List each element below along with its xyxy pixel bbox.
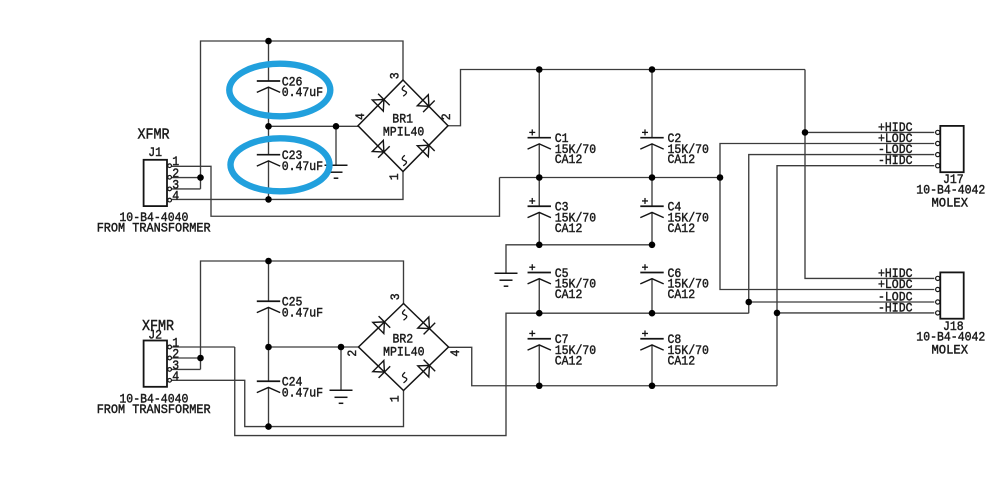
capacitor C8 xyxy=(640,330,709,368)
capacitor C23 xyxy=(257,148,323,174)
svg-text:MPIL40: MPIL40 xyxy=(383,344,424,359)
capacitor C7 xyxy=(528,330,597,368)
wire C25 top branch xyxy=(268,261,270,301)
capacitor C3 xyxy=(528,198,597,236)
svg-text:0.47uF: 0.47uF xyxy=(282,385,323,400)
svg-text:CA12: CA12 xyxy=(555,353,583,368)
svg-text:-HIDC: -HIDC xyxy=(878,300,913,315)
pin circle J18 pin 2 xyxy=(936,287,940,291)
wire +LODC J17 pin 2 and drop to J18 pin 2 xyxy=(720,144,934,290)
capacitor C1 xyxy=(528,129,597,167)
AC squiggle mark BR1 xyxy=(402,86,406,97)
diode BR2 lower-right xyxy=(418,365,430,377)
svg-text:0.47uF: 0.47uF xyxy=(282,85,323,100)
svg-text:MOLEX: MOLEX xyxy=(932,195,969,210)
wire +LO rail C1/C3 junction xyxy=(500,177,721,179)
wire -LO rail C5/C7 junction to J2 pin 1 xyxy=(235,313,749,435)
svg-text:3: 3 xyxy=(388,72,403,79)
junction dot at (268.5,41) xyxy=(265,38,272,45)
junction dot at (539.25,385.75) xyxy=(536,382,543,389)
bridge rectifier BR2 diamond xyxy=(359,304,449,391)
capacitor C26 xyxy=(257,74,323,100)
wire -HIDC to J18 pin 4 xyxy=(777,312,934,314)
svg-text:CA12: CA12 xyxy=(555,221,583,236)
svg-text:CA12: CA12 xyxy=(668,353,696,368)
junction dot at (720,177.5) xyxy=(717,174,724,181)
diode BR1 upper-left xyxy=(372,100,384,112)
wire -LODC to J18 pin 3 xyxy=(749,301,935,303)
capacitor C24 xyxy=(257,375,323,401)
wire C26 bottom to mid node xyxy=(268,87,270,126)
pin circle J1 pin 4 xyxy=(168,198,172,202)
diode BR2 upper-right xyxy=(418,317,430,329)
junction dot at (539.25,69.5) xyxy=(536,66,543,73)
ground at BR2 minus net xyxy=(330,390,353,403)
wire ground rail C3/C4 to C5/C6 xyxy=(506,245,652,273)
svg-text:J1: J1 xyxy=(148,145,162,160)
capacitor C4 xyxy=(640,198,709,236)
wire C25 bottom xyxy=(268,307,270,347)
wire C24 top xyxy=(268,347,270,381)
pin circle J1 pin 1 xyxy=(168,164,172,168)
wire ground stem at BR1 pin 4 net xyxy=(335,126,337,165)
bridge rectifier BR1 diamond xyxy=(358,80,448,172)
wire mid rail C25/C24 junction to BR2 pin 2 xyxy=(269,346,359,348)
pin circle J2 pin 4 xyxy=(168,378,172,382)
wire J2 pin 2 stub xyxy=(172,357,201,359)
pin circle J18 pin 4 xyxy=(936,311,940,315)
svg-text:CA12: CA12 xyxy=(555,287,583,302)
junction dot at (268.5,426.6) xyxy=(265,423,272,430)
ground at BR1 minus net xyxy=(325,165,348,178)
pin circle J18 pin 1 xyxy=(936,276,940,280)
wire J1 pin 3 stub xyxy=(172,188,201,190)
connector J18 body xyxy=(940,272,963,318)
svg-text:FROM TRANSFORMER: FROM TRANSFORMER xyxy=(97,220,211,235)
junction dot at (268.5,347) xyxy=(265,344,272,351)
wire C2/C4/C6/C8 column xyxy=(651,70,653,138)
junction dot at (336,126.3) xyxy=(333,123,340,130)
connector J1 body xyxy=(144,160,167,206)
pin circle J17 pin 1 xyxy=(936,130,940,134)
pin circle J2 pin 2 xyxy=(168,356,172,360)
diode BR1 lower-right xyxy=(417,145,429,157)
svg-text:2: 2 xyxy=(439,113,454,120)
wire BR1 pin 2 to +HI cap rail xyxy=(448,70,805,126)
wire C1/C3/C5/C7 column xyxy=(538,70,540,138)
junction dot at (200.5,358) xyxy=(197,355,204,362)
capacitor C2 xyxy=(640,129,709,167)
diode BR1 upper-right xyxy=(417,95,429,107)
pin circle J17 pin 2 xyxy=(936,141,940,145)
junction dot at (341,347) xyxy=(338,344,345,351)
junction dot at (748.75,302) xyxy=(745,299,752,306)
wire C26 top branch xyxy=(268,41,270,81)
junction dot at (268.5,199.4) xyxy=(265,196,272,203)
wire C23 top xyxy=(268,126,270,154)
svg-text:3: 3 xyxy=(388,293,403,300)
svg-text:XFMR: XFMR xyxy=(138,127,170,144)
wire J1 pin 2 stub xyxy=(172,177,201,179)
ground at capacitor bank mid rail xyxy=(495,273,518,286)
svg-text:4: 4 xyxy=(448,350,463,357)
wire -HIDC J17 pin 4 and drop to -HI rail xyxy=(777,166,934,386)
wire +HI vertical feed to J17/J18 +HIDC xyxy=(805,70,934,279)
wire -HI bottom rail from BR2 pin 4 xyxy=(449,347,778,385)
diode BR2 lower-left xyxy=(373,361,385,373)
wire J2 pin 3 stub xyxy=(172,368,201,370)
junction dot at (652,177.5) xyxy=(649,174,656,181)
svg-text:MPIL40: MPIL40 xyxy=(383,124,424,139)
junction dot at (200.5,177.6) xyxy=(197,174,204,181)
svg-text:0.47uF: 0.47uF xyxy=(282,305,323,320)
svg-text:4: 4 xyxy=(172,369,179,384)
svg-text:FROM TRANSFORMER: FROM TRANSFORMER xyxy=(97,402,211,417)
svg-text:CA12: CA12 xyxy=(555,152,583,167)
svg-text:MOLEX: MOLEX xyxy=(932,342,969,357)
junction dot at (652,313.2) xyxy=(649,310,656,317)
wire J2 pin 4 to BR2 pin 1 xyxy=(172,380,404,426)
pin circle J1 pin 2 xyxy=(168,175,172,179)
AC squiggle mark BR2 xyxy=(402,310,406,321)
junction dot at (777,312.9) xyxy=(774,310,781,317)
svg-text:J2: J2 xyxy=(148,327,162,342)
wire C24 bottom xyxy=(268,387,270,426)
wire ground stem at BR2 pin 2 net xyxy=(340,347,342,390)
wire mid rail C26/C23 junction to BR1 pin 4 xyxy=(269,125,359,127)
pin circle J17 pin 4 xyxy=(936,164,940,168)
highlight ellipse around C26 xyxy=(229,64,330,117)
pin circle J1 pin 3 xyxy=(168,187,172,191)
pin circle J17 pin 3 xyxy=(936,153,940,157)
svg-text:1: 1 xyxy=(388,395,403,402)
junction dot at (539.25,313.2) xyxy=(536,310,543,317)
diode BR1 lower-left xyxy=(372,140,384,152)
wire J1 pin 1 to +LO rail (C1/C3 junction) xyxy=(172,166,500,216)
pin circle J2 pin 3 xyxy=(168,368,172,372)
pin circle J18 pin 3 xyxy=(936,300,940,304)
wire C23 bottom xyxy=(268,161,270,199)
svg-text:1: 1 xyxy=(387,173,402,180)
AC squiggle mark BR2 xyxy=(402,372,406,383)
wire bottom-section AC rail J2 pins 2/3 to BR2 pin 3 xyxy=(201,261,404,369)
svg-text:CA12: CA12 xyxy=(668,152,696,167)
junction dot at (652,385.75) xyxy=(649,382,656,389)
connector J2 body xyxy=(144,341,167,387)
capacitor C6 xyxy=(640,264,709,302)
wire top-left AC rail from J1 pins 2/3 to BR1 pin 3 xyxy=(201,41,404,189)
AC squiggle mark BR1 xyxy=(402,155,406,166)
wire +HIDC to J17 pin 1 xyxy=(805,131,934,133)
junction dot at (539.25,177.5) xyxy=(536,174,543,181)
junction dot at (268.5,261) xyxy=(265,258,272,265)
capacitor C5 xyxy=(528,264,597,302)
wire J2 pin 1 stub xyxy=(172,346,235,348)
junction dot at (268.5,126.3) xyxy=(265,123,272,130)
capacitor C25 xyxy=(257,295,323,321)
pin circle J2 pin 1 xyxy=(168,345,172,349)
svg-text:4: 4 xyxy=(172,189,179,204)
diode BR2 upper-left xyxy=(373,322,385,334)
svg-text:CA12: CA12 xyxy=(668,287,696,302)
junction dot at (652,69.5) xyxy=(649,66,656,73)
svg-text:2: 2 xyxy=(345,350,360,357)
highlight ellipse around C23 xyxy=(231,138,330,191)
junction dot at (539.25,244.8) xyxy=(536,242,543,249)
wire J1 pin 4 to BR1 pin 1 xyxy=(172,172,403,200)
junction dot at (652,244.8) xyxy=(649,242,656,249)
wire -LODC J17 pin 3 and drop to -LO rail xyxy=(749,155,935,314)
junction dot at (805,132.4) xyxy=(802,129,809,136)
svg-text:-HIDC: -HIDC xyxy=(878,153,913,168)
svg-text:0.47uF: 0.47uF xyxy=(282,159,323,174)
connector J17 body xyxy=(940,126,963,172)
svg-text:CA12: CA12 xyxy=(668,221,696,236)
svg-text:4: 4 xyxy=(353,113,368,120)
